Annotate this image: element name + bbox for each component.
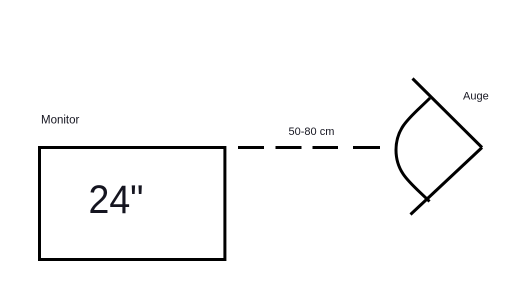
svg-text:50-80 cm: 50-80 cm [289, 126, 335, 138]
monitor rectangle [40, 148, 225, 260]
dashed distance line segment 1 [238, 146, 264, 149]
dashed distance line segment 3 [313, 146, 339, 149]
eye cornea arc [396, 98, 430, 202]
dashed distance line segment 2 [276, 146, 302, 149]
svg-text:Monitor: Monitor [41, 115, 80, 127]
eye upper lid line [413, 79, 483, 148]
dashed distance line segment 4 [353, 146, 380, 149]
eye lower lid line [411, 148, 483, 215]
svg-text:Auge: Auge [463, 91, 489, 103]
svg-text:24": 24" [89, 178, 144, 222]
